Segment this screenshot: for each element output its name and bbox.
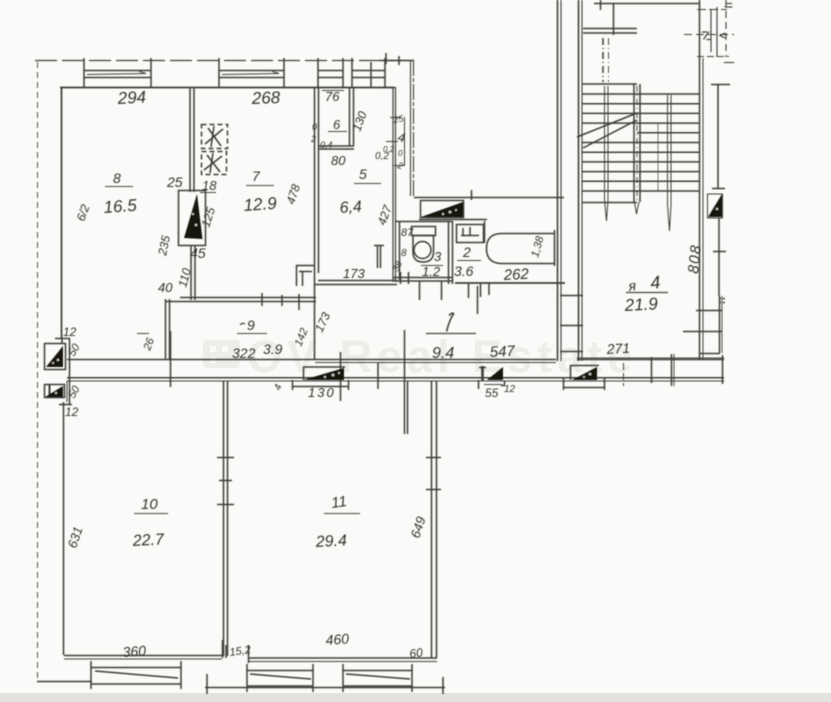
wall room10/room11: [217, 381, 234, 656]
stair lower landing edge: [582, 202, 637, 204]
dim 360: [122, 642, 147, 660]
dim 60: [408, 645, 423, 661]
stair stringer axis dash-dot: [636, 86, 638, 200]
dim 15,2: [229, 644, 252, 659]
left 12 upper: [63, 325, 77, 339]
room1 area 9.4: [432, 345, 454, 362]
dim 0.2: [375, 151, 389, 162]
room1 number: [426, 313, 476, 333]
room6 number: [328, 117, 347, 132]
dim 427 rotated: [375, 202, 395, 227]
room4 bottom double wall: [577, 357, 724, 359]
dim 271: [605, 340, 630, 357]
svg-text:22.7: 22.7: [131, 531, 165, 550]
dim 76: [322, 89, 344, 104]
left 50 lower rotated: [66, 383, 83, 400]
dim 25: [166, 174, 183, 190]
room8 bottom wall: [165, 293, 316, 310]
left vent box 1: [45, 344, 66, 370]
room11 bottom wall: [248, 658, 437, 662]
svg-text:40: 40: [158, 280, 173, 295]
dim 6/2 rotated: [74, 202, 93, 223]
svg-text:808: 808: [685, 243, 705, 274]
hatch square stove 2 cross: [204, 153, 222, 173]
left wall bottom section: [64, 381, 68, 655]
room10 area 22.7: [131, 531, 165, 550]
bath 1.38 rotated: [529, 234, 546, 259]
bathroom bottom wall: [455, 282, 565, 284]
band window 55 marker: [479, 366, 506, 389]
dim 268: [250, 88, 281, 108]
left 12 lower: [65, 405, 79, 419]
toilet 38 rotated: [391, 260, 404, 273]
svg-text:12: 12: [504, 384, 516, 395]
room9 number: [237, 317, 267, 334]
room3 area 1.2: [421, 264, 443, 279]
room11 area 29.4: [314, 532, 347, 551]
room4 right verticals: [720, 296, 723, 353]
svg-text:173: 173: [343, 266, 365, 281]
window room11 b: [343, 664, 412, 692]
top wall corner tick near shaft: [386, 53, 399, 65]
wall room8/room7 upper part: [190, 87, 194, 192]
left 50 upper rotated: [66, 341, 83, 358]
stair top landing line: [594, 0, 700, 35]
svg-text:4: 4: [649, 272, 661, 293]
svg-text:130: 130: [308, 385, 336, 400]
dim 262: [502, 266, 530, 284]
hall bottom wall second line: [315, 362, 556, 364]
entry rungs between hall and stairs: [560, 296, 583, 352]
svg-text:5: 5: [359, 166, 367, 182]
dim 80: [331, 153, 346, 168]
band tick x378: [377, 362, 379, 389]
stair stringer spike: [635, 202, 640, 214]
svg-text:87: 87: [401, 227, 414, 239]
stair break diagonals: [577, 113, 637, 148]
svg-text:0: 0: [312, 122, 317, 132]
right dim line below triangle: [713, 218, 726, 296]
dim 26 rotated: [137, 334, 157, 353]
svg-text:45: 45: [190, 245, 206, 261]
svg-text:0: 0: [398, 149, 403, 158]
svg-text:8: 8: [113, 170, 121, 186]
stair treads: [582, 84, 699, 191]
svg-text:262: 262: [502, 266, 530, 284]
svg-text:12.9: 12.9: [243, 194, 278, 215]
svg-text:6,4: 6,4: [339, 198, 362, 217]
svg-text:3.9: 3.9: [263, 341, 283, 357]
svg-text:322: 322: [232, 345, 256, 361]
window box above bathroom triangle: [421, 202, 463, 217]
toilet room walls: [396, 221, 453, 284]
window top A: [84, 58, 151, 88]
band tick x340: [340, 352, 342, 401]
wall room7/hall vertical: [315, 87, 319, 360]
band tick x651: [651, 357, 653, 383]
dim 173 room5: [343, 266, 365, 281]
room6 small labels: [310, 122, 333, 150]
left wall upper apartment: [61, 87, 63, 338]
svg-text:547: 547: [489, 343, 516, 361]
svg-text:80: 80: [331, 153, 346, 168]
sink room2: [457, 225, 484, 243]
svg-text:360: 360: [122, 642, 147, 660]
band window mid triangle: [572, 367, 597, 380]
balcony door jambs: [223, 640, 249, 663]
band tick x170: [170, 331, 172, 387]
stairwell left wall: [579, 0, 583, 361]
band window mid box: [563, 363, 624, 390]
room7 area 12.9: [243, 194, 278, 215]
dim 130 band: [308, 385, 336, 400]
svg-text:6: 6: [333, 117, 341, 132]
svg-text:21.9: 21.9: [623, 294, 659, 315]
stub wall into room11: [405, 330, 408, 434]
hatch square stove 1 cross: [205, 126, 223, 147]
band lower wall double: [67, 378, 724, 381]
svg-text:18: 18: [202, 178, 217, 193]
shaft right wall: [411, 60, 414, 196]
room7 number: [246, 168, 274, 186]
window box above bathroom: [421, 201, 464, 218]
svg-text:12: 12: [65, 405, 79, 419]
dim 808 rotated: [685, 243, 705, 274]
band window 130 triangle: [303, 368, 344, 380]
band window 130 box: [292, 367, 349, 390]
room8 area 16.5: [103, 196, 138, 217]
room4 right ticks: [683, 299, 725, 354]
svg-text:10: 10: [141, 496, 158, 513]
dim 125 rotated: [199, 205, 219, 229]
flue box room8/7: [179, 191, 206, 246]
svg-text:76: 76: [325, 89, 340, 104]
wall room9/hall: [166, 299, 170, 360]
left vent box 2: [45, 385, 65, 399]
room2/bath divider: [484, 221, 486, 243]
room11 number: [324, 493, 360, 514]
room5 bottom wall: [314, 281, 397, 285]
svg-text:2: 2: [310, 134, 316, 144]
hatch square stove 1: [202, 125, 228, 149]
band window 55 triangle: [487, 367, 503, 380]
top inner wall: [60, 87, 394, 89]
room10 bottom wall: [64, 656, 222, 660]
apartment right wall: [558, 0, 562, 361]
stair window triangle right: [708, 194, 723, 218]
svg-text:0,4: 0,4: [320, 140, 333, 150]
svg-text:8: 8: [401, 248, 407, 259]
shaft inner box: [386, 117, 405, 166]
window top D: [352, 58, 385, 88]
svg-text:55: 55: [485, 386, 499, 400]
room5 area 6.4: [339, 198, 362, 217]
window room10: [91, 661, 181, 689]
room3 number: [434, 249, 442, 264]
room2 door jambs: [469, 283, 490, 314]
svg-text:460: 460: [325, 630, 350, 648]
stair arrow spike left: [605, 86, 609, 221]
dim 40: [158, 280, 173, 295]
flue hatch triangle: [184, 194, 203, 239]
stair upper dash-dot line: [603, 38, 609, 82]
room2 area 3.6: [454, 263, 474, 279]
toilet door jambs: [401, 272, 442, 300]
toilet 87: [401, 227, 414, 239]
svg-text:25: 25: [166, 174, 183, 190]
stair window triangle right fill: [708, 194, 722, 217]
dim 649 rotated: [408, 515, 429, 540]
hall bottom wall upper line: [67, 359, 724, 361]
stair mid rail: [657, 123, 659, 191]
stair stringer: [634, 84, 640, 202]
room6 bottom wall: [318, 146, 354, 149]
door jamb room7 bottom: [296, 265, 314, 286]
room5 number: [354, 166, 381, 184]
svg-text:11: 11: [330, 493, 348, 512]
stair arrow spike right: [668, 95, 672, 231]
room8 number: [105, 170, 133, 187]
svg-text:16.5: 16.5: [103, 196, 138, 217]
wall room8/room7 lower part: [191, 246, 195, 300]
svg-text:2: 2: [462, 244, 471, 260]
dim 45: [190, 245, 206, 261]
svg-text:12: 12: [63, 325, 77, 339]
dim 173 rotated hall: [312, 310, 333, 334]
shaft top wall: [380, 60, 414, 62]
svg-text:0,2: 0,2: [375, 151, 389, 162]
watermark text: [247, 331, 637, 382]
room6 right wall: [350, 87, 354, 146]
svg-text:9: 9: [247, 317, 255, 333]
room4 label: [626, 272, 668, 294]
band tick label 4: [272, 383, 284, 392]
bathtub: [487, 230, 555, 266]
bottom baseline: [205, 674, 445, 694]
band tick right end: [722, 355, 724, 384]
left vent tick top: [55, 338, 70, 343]
room2 number: [457, 244, 481, 261]
bottom gray band: [0, 693, 831, 702]
dim 547: [489, 343, 516, 361]
room5 right wall / shaft left: [380, 87, 396, 282]
dim 631 rotated: [65, 525, 86, 550]
toilet room bottom wall: [393, 278, 452, 282]
svg-text:9.4: 9.4: [432, 345, 454, 362]
top right detail box: [684, 0, 734, 63]
wall room11 right: [426, 381, 441, 658]
stairwell right wall: [700, 0, 704, 360]
left vent dim line: [59, 338, 72, 405]
outer boundary bottom-left corner: [37, 681, 92, 683]
svg-text:29.4: 29.4: [314, 532, 347, 551]
dim 142 rotated: [293, 327, 311, 349]
svg-text:60: 60: [408, 645, 423, 661]
dim 294: [116, 88, 146, 109]
svg-text:1.2: 1.2: [422, 264, 441, 279]
window top C: [318, 58, 343, 88]
svg-text:294: 294: [116, 88, 146, 109]
dim 235 rotated: [155, 234, 173, 258]
room9 dims 322 3.9: [232, 341, 283, 361]
watermark logo square: [203, 340, 240, 368]
stair upper landing double line: [583, 29, 637, 34]
hatch square stove 2: [202, 152, 227, 175]
room10 number: [134, 496, 168, 514]
svg-text:3.6: 3.6: [454, 263, 474, 279]
window room11 a: [247, 664, 313, 692]
svg-text:3: 3: [434, 249, 442, 264]
dim 18: [200, 178, 217, 193]
dim 55: [484, 384, 516, 400]
band tick x672: [672, 354, 675, 386]
svg-text:7: 7: [252, 168, 261, 184]
dim 460: [325, 630, 350, 648]
line under window box: [419, 219, 487, 221]
left vent box 1 triangle: [46, 346, 63, 367]
toilet 8: [401, 248, 407, 259]
shaft labels: [383, 113, 407, 171]
room4 area 21.9: [623, 294, 659, 315]
outer boundary dashed top: [35, 60, 412, 62]
toilet tank: [412, 227, 436, 236]
dim 478 rotated: [284, 182, 304, 206]
hall north wall: [414, 190, 564, 200]
outer boundary dashed left: [37, 62, 39, 681]
toilet bowl: [413, 236, 434, 263]
stair dim line right: [711, 84, 730, 189]
dim 110 rotated: [175, 266, 194, 288]
left vent box 2 triangle: [45, 386, 63, 397]
svg-text:268: 268: [250, 88, 281, 108]
svg-text:271: 271: [605, 340, 630, 357]
dim 130 rotated room6: [350, 109, 370, 133]
window top B: [219, 58, 284, 88]
door jamb room5 bottom right: [374, 245, 384, 268]
